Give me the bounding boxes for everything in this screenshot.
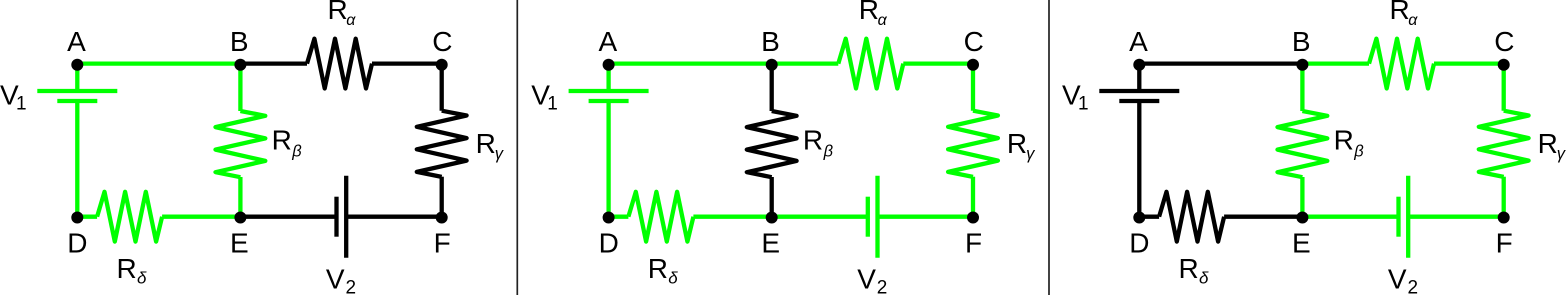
node E (panel 2): [766, 212, 778, 224]
battery V2 positive plate (panel 2): [875, 176, 879, 258]
wire R_delta to E (panel 3): [1224, 215, 1302, 219]
node A (panel 1): [71, 59, 83, 71]
svg-text:R: R: [859, 0, 879, 25]
panel divider 1: [516, 0, 518, 295]
wire R_beta to E (panel 1): [238, 177, 242, 217]
wire R_gamma to F (panel 1): [440, 177, 444, 217]
wire C to R_gamma (panel 3): [1502, 64, 1506, 111]
node A (panel 3): [1133, 59, 1145, 71]
node B (panel 2): [766, 59, 778, 71]
svg-text:R: R: [476, 128, 496, 159]
resistor R_beta (panel 3): [1278, 111, 1328, 177]
wire R_beta to E (panel 3): [1300, 177, 1304, 217]
wire A-B (panel 3): [1139, 61, 1302, 65]
node B (panel 1): [234, 59, 246, 71]
node F (panel 1): [436, 212, 448, 224]
svg-text:E: E: [1292, 227, 1311, 258]
svg-text:R: R: [1334, 124, 1354, 155]
wire E to battery V2 (panel 1): [240, 215, 336, 219]
svg-text:γ: γ: [495, 145, 505, 163]
wire D to R_delta (panel 2): [609, 215, 629, 219]
resistor R_alpha (panel 2): [838, 39, 903, 89]
svg-text:β: β: [291, 142, 302, 160]
svg-text:R: R: [272, 124, 292, 155]
battery V2 negative plate (panel 2): [866, 197, 870, 237]
battery V2 positive plate (panel 1): [344, 176, 348, 258]
wire A-B (panel 1): [77, 61, 240, 65]
panel divider 2: [1048, 0, 1050, 295]
node C (panel 3): [1498, 59, 1510, 71]
svg-text:E: E: [230, 227, 249, 258]
wire battery V1 to D (panel 2): [606, 101, 610, 217]
wire R_beta to E (panel 2): [770, 177, 774, 217]
wire R_alpha to C (panel 2): [903, 61, 973, 65]
svg-text:V: V: [1388, 264, 1407, 295]
svg-text:D: D: [599, 227, 619, 258]
node F (panel 3): [1498, 212, 1510, 224]
wire B to R_beta (panel 2): [770, 64, 774, 111]
battery V1 positive plate (panel 1): [37, 89, 117, 93]
svg-text:R: R: [1390, 0, 1410, 25]
svg-text:F: F: [1496, 227, 1513, 258]
svg-text:R: R: [1179, 253, 1199, 284]
wire B to R_beta (panel 3): [1300, 64, 1304, 111]
svg-text:B: B: [230, 26, 249, 57]
svg-text:F: F: [965, 227, 982, 258]
svg-text:B: B: [761, 26, 780, 57]
svg-text:A: A: [1129, 26, 1148, 57]
wire R_alpha to C (panel 1): [372, 61, 442, 65]
resistor R_delta (panel 3): [1159, 192, 1224, 242]
svg-text:δ: δ: [137, 268, 147, 287]
svg-text:R: R: [803, 124, 823, 155]
svg-text:β: β: [1353, 142, 1364, 160]
node B (panel 3): [1296, 59, 1308, 71]
node A (panel 2): [603, 59, 615, 71]
svg-text:R: R: [1007, 128, 1027, 159]
wire B to R_alpha (panel 1): [240, 61, 307, 65]
svg-text:δ: δ: [668, 268, 678, 287]
svg-text:E: E: [761, 227, 780, 258]
svg-text:γ: γ: [1026, 145, 1036, 163]
svg-text:γ: γ: [1557, 145, 1567, 163]
svg-text:C: C: [432, 26, 452, 57]
wire A to battery V1 (panel 2): [606, 64, 610, 91]
wire C to R_gamma (panel 2): [971, 64, 975, 111]
resistor R_delta (panel 1): [97, 192, 162, 242]
wire B to R_alpha (panel 2): [772, 61, 839, 65]
wire A to battery V1 (panel 1): [75, 64, 79, 91]
wire R_delta to E (panel 2): [693, 215, 771, 219]
wire R_gamma to F (panel 3): [1502, 177, 1506, 217]
wire A to battery V1 (panel 3): [1137, 64, 1141, 91]
svg-text:V: V: [857, 264, 876, 295]
wire B to R_beta (panel 1): [238, 64, 242, 111]
battery V1 positive plate (panel 2): [569, 89, 649, 93]
node C (panel 2): [967, 59, 979, 71]
svg-text:R: R: [648, 253, 668, 284]
node F (panel 2): [967, 212, 979, 224]
svg-text:1: 1: [16, 94, 27, 115]
wire R_delta to E (panel 1): [162, 215, 240, 219]
battery V1 negative plate (panel 2): [589, 99, 629, 103]
resistor R_gamma (panel 2): [948, 111, 998, 177]
battery V2 positive plate (panel 3): [1406, 176, 1410, 258]
wire D to R_delta (panel 3): [1139, 215, 1159, 219]
resistor R_beta (panel 1): [216, 111, 266, 177]
svg-text:D: D: [1129, 227, 1149, 258]
svg-text:α: α: [878, 12, 888, 29]
wire B to R_alpha (panel 3): [1302, 61, 1369, 65]
resistor R_delta (panel 2): [628, 192, 693, 242]
wire C to R_gamma (panel 1): [440, 64, 444, 111]
node E (panel 1): [234, 212, 246, 224]
svg-text:1: 1: [547, 94, 558, 115]
battery V1 negative plate (panel 3): [1119, 99, 1159, 103]
wire D to R_delta (panel 1): [77, 215, 97, 219]
svg-text:α: α: [346, 12, 356, 29]
svg-text:1: 1: [1078, 94, 1089, 115]
wire battery V2 to F (panel 1): [346, 215, 442, 219]
svg-text:2: 2: [877, 277, 888, 295]
svg-text:β: β: [823, 142, 834, 160]
wire battery V1 to D (panel 3): [1137, 101, 1141, 217]
resistor R_alpha (panel 3): [1369, 39, 1434, 89]
svg-text:V: V: [326, 264, 345, 295]
svg-text:C: C: [964, 26, 984, 57]
wire E to battery V2 (panel 2): [772, 215, 868, 219]
resistor R_gamma (panel 1): [417, 111, 467, 177]
resistor R_alpha (panel 1): [307, 39, 372, 89]
resistor R_gamma (panel 3): [1479, 111, 1529, 177]
wire battery V2 to F (panel 3): [1408, 215, 1504, 219]
battery V2 negative plate (panel 3): [1396, 197, 1400, 237]
svg-text:C: C: [1494, 26, 1514, 57]
node C (panel 1): [436, 59, 448, 71]
wire R_alpha to C (panel 3): [1434, 61, 1504, 65]
node D (panel 1): [71, 212, 83, 224]
svg-text:R: R: [328, 0, 348, 25]
svg-text:α: α: [1408, 12, 1418, 29]
battery V1 negative plate (panel 1): [57, 99, 97, 103]
svg-text:D: D: [67, 227, 87, 258]
wire battery V2 to F (panel 2): [878, 215, 974, 219]
svg-text:δ: δ: [1199, 268, 1209, 287]
wire R_gamma to F (panel 2): [971, 177, 975, 217]
svg-text:2: 2: [346, 277, 357, 295]
svg-text:A: A: [598, 26, 617, 57]
wire E to battery V2 (panel 3): [1302, 215, 1398, 219]
svg-text:B: B: [1292, 26, 1311, 57]
node D (panel 3): [1133, 212, 1145, 224]
svg-text:R: R: [1538, 128, 1558, 159]
wire battery V1 to D (panel 1): [75, 101, 79, 217]
svg-text:A: A: [67, 26, 86, 57]
battery V2 negative plate (panel 1): [334, 197, 338, 237]
node E (panel 3): [1296, 212, 1308, 224]
wire A-B (panel 2): [609, 61, 772, 65]
resistor R_beta (panel 2): [747, 111, 797, 177]
svg-text:R: R: [117, 253, 137, 284]
svg-text:F: F: [434, 227, 451, 258]
svg-text:2: 2: [1408, 277, 1419, 295]
battery V1 positive plate (panel 3): [1099, 89, 1179, 93]
node D (panel 2): [603, 212, 615, 224]
